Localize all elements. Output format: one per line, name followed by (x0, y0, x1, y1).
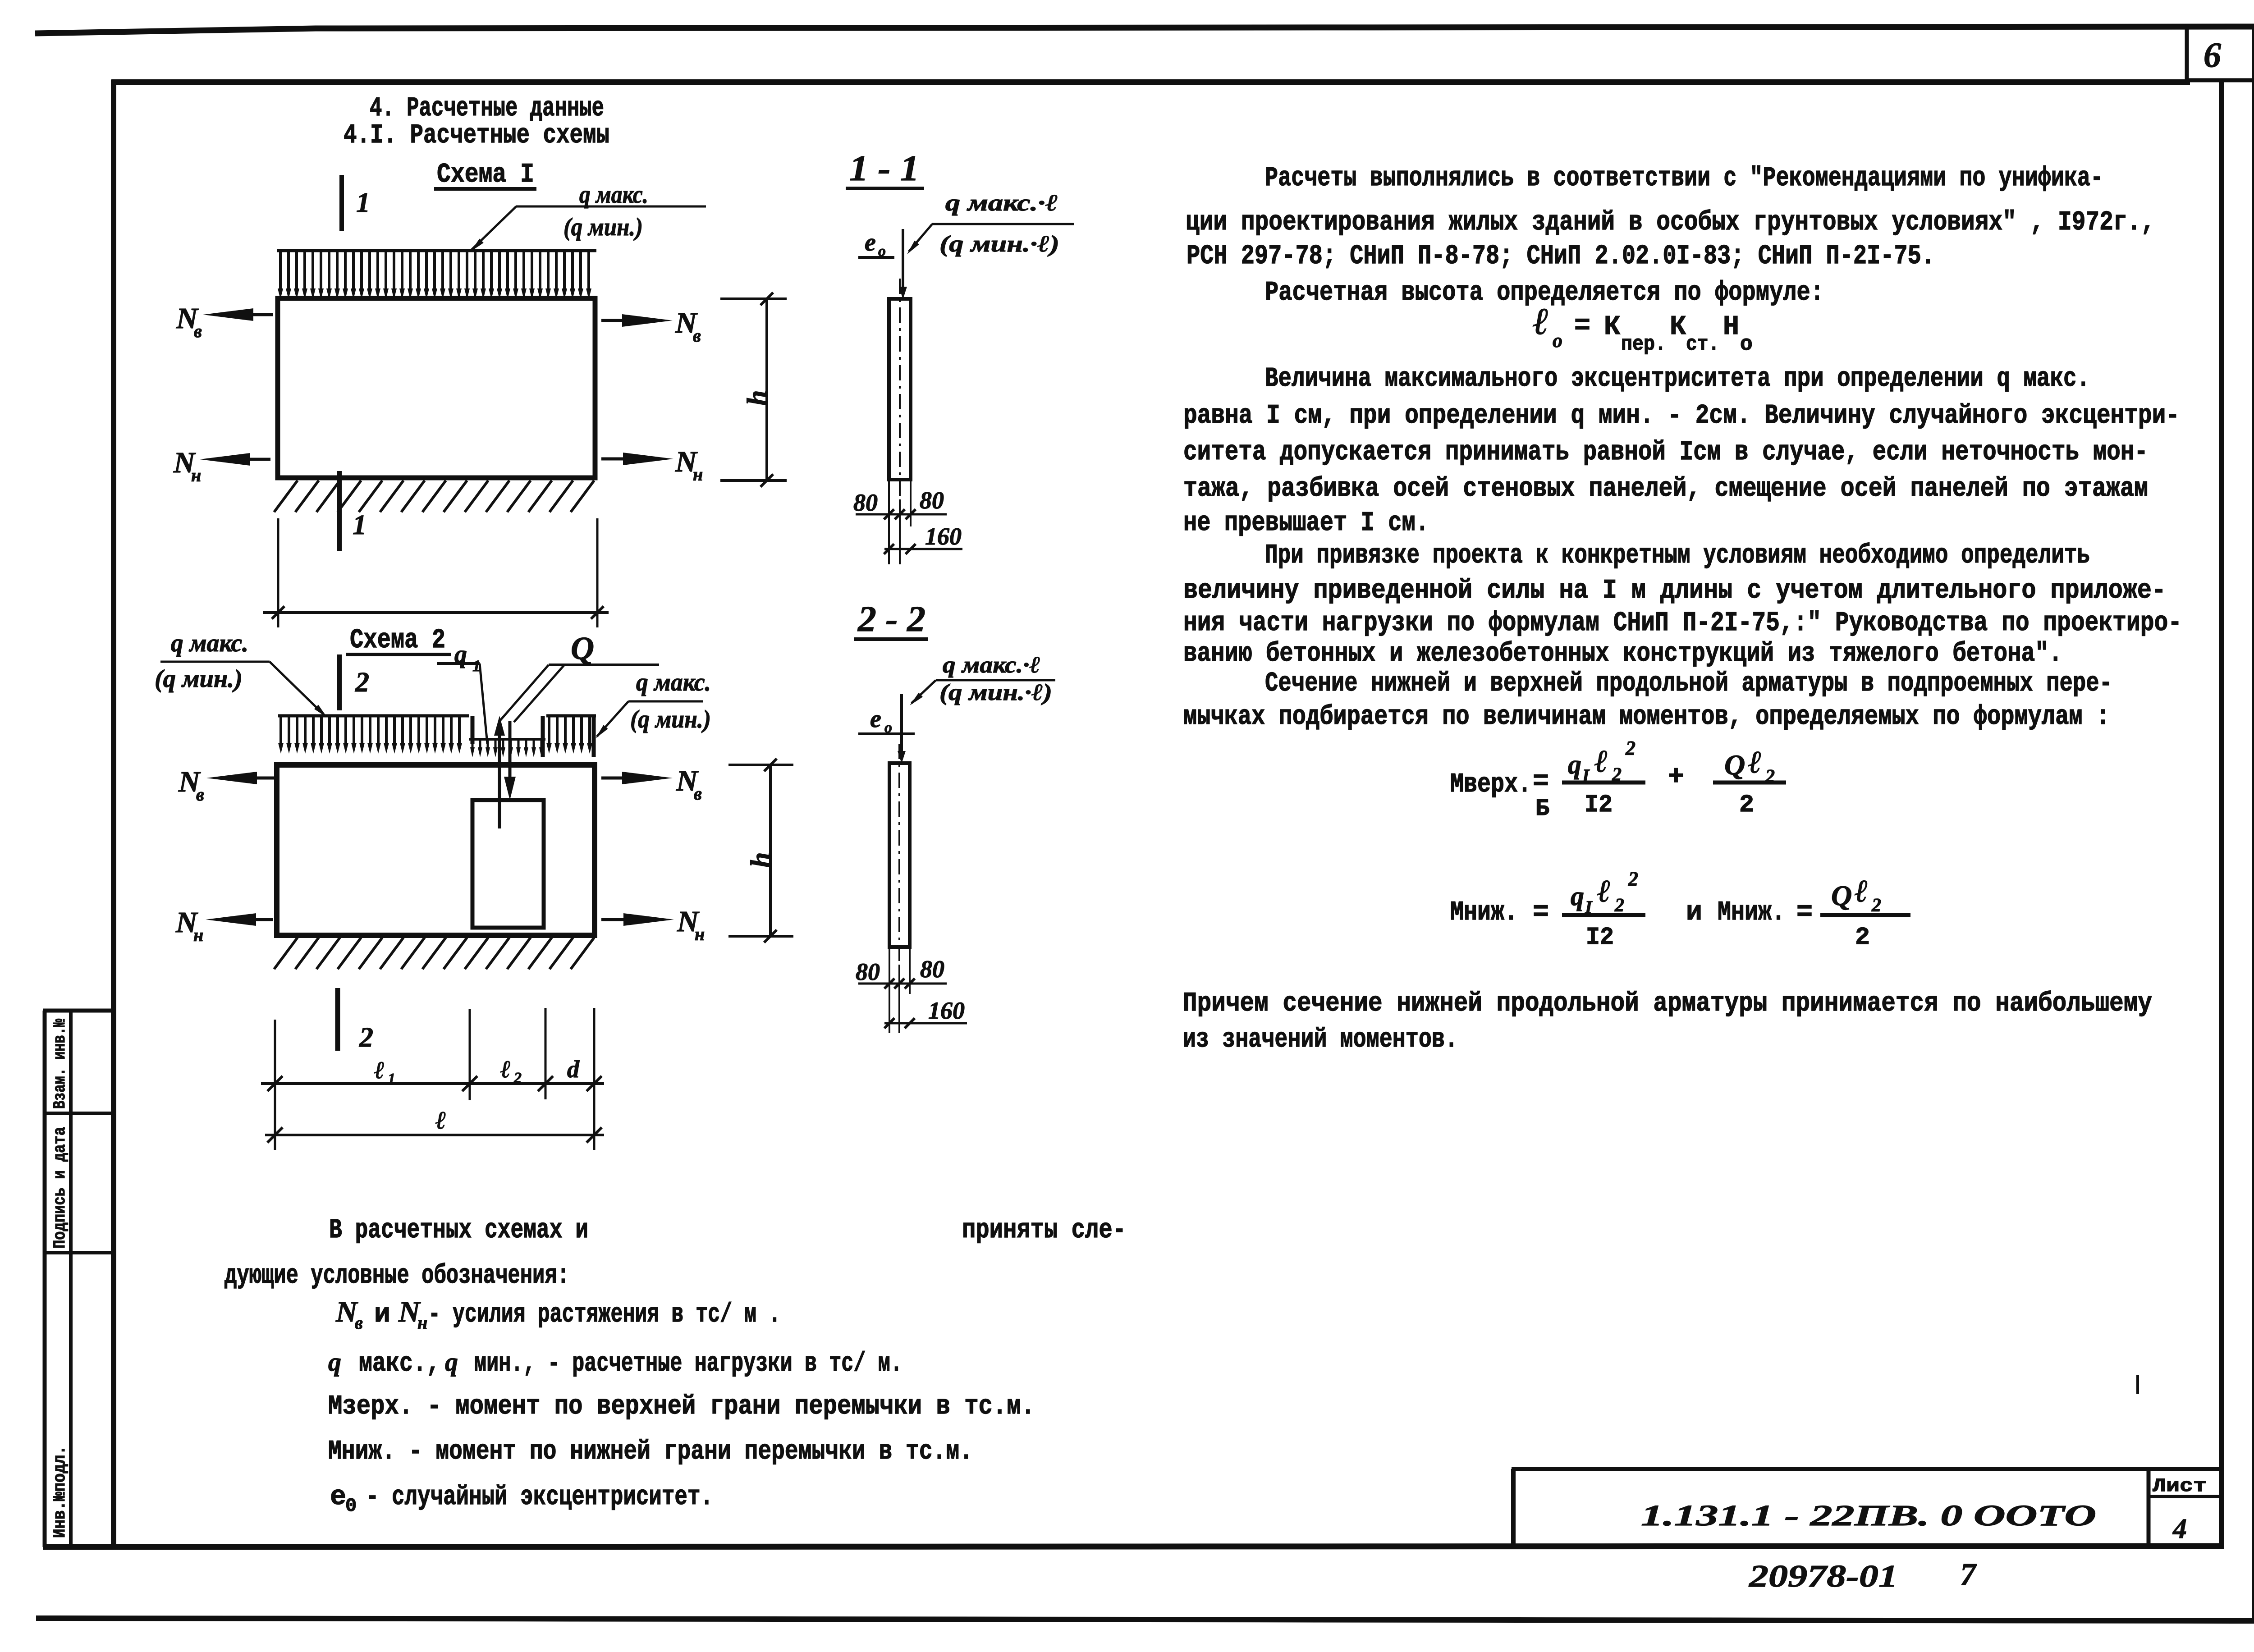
svg-text:Сечение нижней и верхней продо: Сечение нижней и верхней продольной арма… (1265, 668, 2112, 699)
svg-text:в: в (196, 784, 204, 805)
svg-text:1: 1 (353, 510, 367, 540)
svg-text:Мниж. - момент по нижней гран: Мниж. - момент по нижней грани перемычки… (328, 1437, 973, 1467)
svg-text:4.I. Расчетные схемы: 4.I. Расчетные схемы (344, 120, 609, 151)
svg-text:1 - 1: 1 - 1 (849, 149, 919, 188)
svg-text:2: 2 (1625, 737, 1636, 759)
svg-text:Мзерх. - момент по верхней гр: Мзерх. - момент по верхней грани перемыч… (328, 1391, 1035, 1422)
svg-text:q: q (445, 1347, 458, 1377)
svg-text:ции проектирования жилых здани: ции проектирования жилых зданий в особых… (1186, 207, 2155, 238)
svg-text:80: 80 (853, 489, 878, 516)
svg-text:I2: I2 (1585, 791, 1613, 819)
svg-text:пер.: пер. (1621, 333, 1666, 356)
svg-text:Схема I: Схема I (437, 160, 534, 190)
svg-text:q: q (1568, 750, 1581, 779)
svg-text:q: q (1571, 881, 1584, 911)
svg-text:ст.: ст. (1686, 333, 1719, 356)
svg-text:Q: Q (1831, 879, 1852, 911)
svg-text:ℓ: ℓ (1855, 874, 1868, 909)
svg-text:ℓ: ℓ (1533, 301, 1549, 343)
svg-text:Причем сечение нижней продольн: Причем сечение нижней продольной арматур… (1183, 988, 2152, 1019)
svg-text:1: 1 (388, 1071, 395, 1087)
svg-text:Величина максимального эксцент: Величина максимального эксцентриситета п… (1265, 364, 2090, 394)
svg-text:о: о (1740, 333, 1753, 356)
svg-text:в: в (355, 1313, 363, 1333)
svg-text:20978-01: 20978-01 (1749, 1559, 1898, 1594)
svg-text:ℓ: ℓ (500, 1056, 511, 1083)
svg-text:0: 0 (345, 1495, 357, 1517)
svg-text:2: 2 (1739, 791, 1754, 819)
svg-text:Расчеты выполнялись в соответс: Расчеты выполнялись в соответствии с "Ре… (1265, 163, 2103, 194)
svg-text:2: 2 (1871, 895, 1881, 916)
svg-text:=: = (1796, 897, 1813, 928)
svg-text:н: н (191, 465, 201, 485)
svg-text:В расчетных схемах и: В расчетных схемах и (329, 1215, 588, 1246)
svg-text:ситета допускается принимать р: ситета допускается принимать равной Iсм … (1183, 437, 2148, 468)
svg-text:2 - 2: 2 - 2 (857, 599, 925, 639)
svg-text:Н: Н (1723, 312, 1739, 343)
svg-text:q макс.·ℓ: q макс.·ℓ (943, 652, 1040, 678)
svg-text:ℓ: ℓ (1748, 745, 1762, 780)
svg-text:h: h (746, 852, 776, 868)
svg-text:e: e (870, 705, 881, 733)
svg-text:РСН 297-78; СНиП П-8-78; СНиП: РСН 297-78; СНиП П-8-78; СНиП 2.02.0I-83… (1187, 241, 1935, 272)
svg-text:Б: Б (1535, 796, 1549, 822)
svg-text:80: 80 (920, 487, 944, 514)
svg-text:е: е (330, 1482, 346, 1513)
svg-text:6: 6 (2204, 35, 2221, 74)
svg-text:в: в (194, 321, 202, 341)
svg-text:7: 7 (1960, 1557, 1977, 1592)
svg-text:2: 2 (359, 1022, 373, 1053)
svg-text:(q мин.): (q мин.) (563, 213, 643, 241)
svg-text:2: 2 (1628, 868, 1638, 890)
svg-text:мин., - расчетные нагрузки в т: мин., - расчетные нагрузки в тс/ м. (474, 1349, 903, 1379)
svg-text:Инв.№подл.: Инв.№подл. (50, 1446, 70, 1538)
svg-text:Q: Q (571, 630, 594, 666)
svg-text:q макс.: q макс. (171, 629, 248, 657)
svg-text:2: 2 (355, 667, 369, 698)
svg-text:Лист: Лист (2153, 1475, 2207, 1497)
svg-text:(q мин.): (q мин.) (155, 665, 243, 693)
svg-text:+: + (1668, 762, 1684, 793)
svg-text:Мниж.: Мниж. (1718, 897, 1785, 928)
svg-text:н: н (417, 1313, 427, 1333)
svg-text:приняты сле-: приняты сле- (962, 1215, 1126, 1246)
svg-text:q: q (328, 1347, 341, 1377)
svg-text:К: К (1604, 312, 1620, 343)
svg-text:2: 2 (1855, 923, 1870, 952)
svg-text:ℓ: ℓ (1594, 744, 1608, 779)
svg-text:=: = (1533, 897, 1549, 928)
svg-text:(q мин.): (q мин.) (630, 705, 711, 733)
svg-text:160: 160 (925, 523, 962, 550)
svg-text:равна I см, при определении q: равна I см, при определении q мин. - 2см… (1183, 401, 2180, 431)
svg-text:н: н (695, 924, 705, 944)
svg-text:I2: I2 (1586, 923, 1614, 952)
svg-text:ℓ: ℓ (435, 1107, 446, 1135)
svg-text:ℓ: ℓ (1597, 874, 1611, 909)
svg-text:h: h (742, 390, 773, 406)
svg-text:1.131.1 - 22ПВ. 0 ООТО: 1.131.1 - 22ПВ. 0 ООТО (1641, 1499, 2096, 1532)
svg-text:80: 80 (920, 956, 944, 983)
svg-text:о: о (1553, 329, 1562, 352)
svg-text:ℓ: ℓ (374, 1057, 385, 1084)
svg-text:и: и (374, 1300, 390, 1330)
svg-text:1: 1 (356, 188, 370, 218)
svg-text:К: К (1670, 312, 1686, 343)
svg-text:(q мин.·ℓ): (q мин.·ℓ) (939, 680, 1052, 705)
svg-text:2: 2 (1614, 895, 1624, 916)
svg-text:макс.,: макс., (359, 1349, 440, 1379)
svg-text:в: в (693, 325, 701, 346)
svg-text:e: e (865, 229, 876, 256)
svg-text:Мверх.: Мверх. (1450, 769, 1531, 800)
svg-text:ния части нагрузки по формулам: ния части нагрузки по формулам СНиП П-2I… (1183, 608, 2182, 639)
svg-text:q макс.: q макс. (579, 181, 648, 209)
svg-text:80: 80 (856, 958, 880, 985)
svg-text:=: = (1574, 311, 1590, 342)
svg-text:- усилия растяжения в тс/ м .: - усилия растяжения в тс/ м . (428, 1300, 781, 1330)
svg-text:из значений моментов.: из значений моментов. (1183, 1025, 1458, 1055)
svg-text:н: н (193, 925, 203, 945)
svg-text:величину приведенной силы на I: величину приведенной силы на I м длины с… (1183, 576, 2166, 606)
svg-text:не превышает I см.: не превышает I см. (1183, 508, 1429, 539)
svg-text:Подпись и дата: Подпись и дата (50, 1127, 70, 1249)
svg-text:тажа, разбивка осей стеновых: тажа, разбивка осей стеновых панелей, см… (1183, 474, 2148, 504)
svg-text:При привязке проекта к конкрет: При привязке проекта к конкретным услови… (1265, 540, 2090, 571)
svg-text:Схема 2: Схема 2 (350, 625, 445, 656)
svg-text:ванию бетонных и железобетонны: ванию бетонных и железобетонных конструк… (1183, 639, 2062, 669)
svg-text:160: 160 (928, 997, 965, 1024)
svg-text:н: н (693, 464, 703, 485)
svg-text:Q: Q (1724, 749, 1745, 781)
svg-text:(q мин.·ℓ): (q мин.·ℓ) (939, 231, 1059, 257)
svg-text:d: d (567, 1056, 580, 1083)
svg-text:дующие условные обозначения:: дующие условные обозначения: (224, 1261, 569, 1291)
svg-text:4: 4 (2172, 1514, 2187, 1544)
svg-text:4. Расчетные данные: 4. Расчетные данные (370, 93, 604, 124)
svg-text:мычках подбирается по величина: мычках подбирается по величинам моментов… (1183, 702, 2110, 732)
svg-text:в: в (694, 783, 702, 804)
svg-text:2: 2 (513, 1070, 522, 1086)
svg-text:=: = (1533, 767, 1549, 797)
svg-text:q макс.: q макс. (636, 668, 711, 696)
svg-text:- случайный эксцентриситет.: - случайный эксцентриситет. (366, 1482, 713, 1513)
svg-text:Мниж.: Мниж. (1450, 897, 1518, 928)
svg-text:Взам. инв.№: Взам. инв.№ (50, 1019, 70, 1109)
svg-text:и: и (1686, 897, 1702, 928)
svg-text:q макс.·ℓ: q макс.·ℓ (945, 190, 1058, 216)
